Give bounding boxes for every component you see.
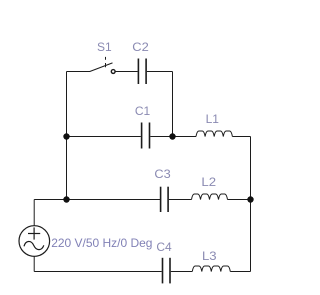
wire C2 branch down	[172, 72, 174, 137]
AC source V1 220V/50Hz	[19, 200, 50, 272]
capacitor C4	[163, 258, 171, 284]
wire C1 to L1	[150, 136, 196, 138]
wire L1 to right corner	[232, 136, 250, 138]
svg-text:C1: C1	[135, 104, 151, 118]
capacitor C3	[161, 187, 169, 212]
junction C2 branch / C1 row	[169, 133, 175, 139]
junction L1-L2 right rail	[247, 196, 253, 202]
junction node A / C3 row	[63, 196, 69, 202]
wire L2 to right rail	[228, 199, 251, 201]
wire row2 left segment	[67, 136, 141, 138]
capacitor C2	[138, 59, 146, 85]
wire C4 to L3	[171, 271, 193, 273]
wire right rail	[250, 137, 252, 272]
wire left rail node A	[66, 72, 68, 200]
wire C2 to corner	[147, 71, 173, 73]
wire top row left segment	[67, 71, 91, 73]
svg-text:220 V/50 Hz/0 Deg: 220 V/50 Hz/0 Deg	[51, 236, 152, 250]
inductor L1	[196, 131, 232, 137]
svg-text:C2: C2	[132, 40, 149, 54]
inductor L2	[192, 194, 228, 200]
wire row4 left segment	[34, 271, 162, 273]
svg-text:C4: C4	[156, 240, 172, 254]
wire switch to C2	[115, 71, 137, 73]
svg-text:L1: L1	[206, 112, 220, 126]
svg-text:L3: L3	[202, 249, 217, 263]
wire row3 left segment	[34, 199, 160, 201]
svg-text:L2: L2	[201, 175, 216, 189]
svg-text:S1: S1	[97, 40, 112, 54]
wire L3 to right rail	[230, 271, 250, 273]
inductor L3	[192, 266, 230, 272]
capacitor C1	[142, 123, 150, 149]
wire C3 to L2	[169, 199, 192, 201]
svg-text:C3: C3	[154, 167, 171, 181]
junction node A / C1 row	[63, 133, 69, 139]
switch S1	[90, 57, 115, 74]
